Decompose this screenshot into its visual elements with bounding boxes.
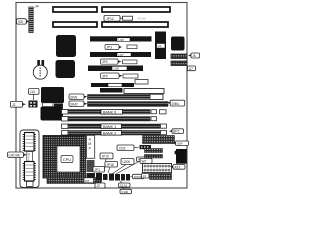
callout J8 [167,100,185,106]
slot row D2 dark [100,88,123,93]
svg-text:JP5: JP5 [102,74,108,78]
callout U24 [173,141,189,146]
svg-text:BANK 1: BANK 1 [103,125,116,129]
header bar J20 [47,178,101,184]
chip U30 wide [41,87,64,103]
callout pair A/B [105,45,137,50]
svg-text:J4: J4 [143,174,147,178]
chip U11 [56,60,76,78]
mini header 2 [145,155,163,159]
ISA slot 1 right [102,7,170,12]
ISA slot 2 right [102,22,168,27]
SIMM socket 1 [88,95,151,100]
SIMM socket 4 [62,117,157,122]
connector CN2 [171,61,187,66]
callout ATX [170,165,185,170]
callout J2b [95,181,105,188]
callout J40 [142,174,150,179]
callout J6 [188,53,200,58]
callout W106 [130,174,144,179]
callout V10 [120,188,132,195]
CPU center [57,146,80,172]
ISA slot 2 left [53,22,97,27]
svg-text:U300: U300 [123,160,131,164]
svg-text:J2: J2 [97,184,101,188]
svg-text:ATX: ATX [175,165,182,169]
svg-text:CACHE: CACHE [9,153,22,157]
battery [33,60,47,79]
power connector [176,149,187,164]
keyboard connector J4 [29,7,33,33]
chip U10 [56,35,76,57]
SIMM socket 1 end [150,94,163,99]
callout G101 [119,181,131,188]
SIMM tab 1 [69,94,87,100]
svg-text:CPU: CPU [63,157,72,162]
callout pair B/C [101,59,138,64]
slot row A [90,36,152,42]
svg-text:JP4: JP4 [102,60,108,64]
callout J12 [104,16,146,22]
svg-text:SIM2: SIM2 [70,102,78,106]
slot row C [88,66,143,72]
callout J2 [11,101,26,107]
callout W1 [116,157,147,174]
SIMM socket 2 [88,102,169,107]
SIMM socket 6 [62,131,167,136]
SIMM socket 3 [62,110,167,115]
slot row B [90,52,151,57]
svg-text:V100: V100 [121,190,128,194]
svg-text:CN2: CN2 [119,146,126,150]
slot row D [91,83,134,87]
front panel header cluster [96,173,130,181]
SIMM socket 5 [62,124,167,129]
svg-text:W106: W106 [134,175,142,179]
ISA slot 1 left [53,7,97,12]
socket label vertical [87,135,96,178]
svg-text:KB: KB [18,20,23,24]
callout J10 [29,89,40,101]
callout CACHE [8,152,27,158]
svg-text:J10: J10 [30,90,35,94]
cache small square [27,182,34,187]
callout J5 [100,153,113,172]
svg-text:BP1: BP1 [173,130,179,134]
board outline [16,3,187,189]
svg-text:G101: G101 [120,184,128,188]
callout BP1 [169,129,184,134]
svg-text:U1: U1 [158,44,162,48]
slot row D2 light [124,89,164,94]
callout U300 [112,159,134,175]
svg-text:DX: DX [85,179,89,183]
cache chip U22 [23,162,36,182]
svg-text:JP10: JP10 [102,155,109,159]
BANK 1 label [101,124,122,129]
CPU socket [43,136,86,179]
svg-text:DIM1: DIM1 [172,102,180,106]
header J40 [150,174,172,180]
cache label vertical [27,152,33,162]
chip U8 big [171,37,185,51]
svg-text:JP12: JP12 [106,17,114,21]
svg-text:U16: U16 [119,38,125,42]
BANK 2 label [101,131,122,136]
callout JP18 [105,162,118,174]
callout pair C/D [101,73,139,79]
svg-text:JP1: JP1 [95,168,101,172]
SIMM tab 2 [69,101,87,107]
callout U2 [117,145,151,151]
svg-text:J6: J6 [192,54,196,58]
svg-text:JP3: JP3 [107,45,113,49]
svg-text:BANK 2: BANK 2 [103,131,116,135]
small box U19 [135,80,148,85]
ATX header [143,164,172,173]
callout U7 [188,66,196,71]
svg-text:JP18: JP18 [107,163,114,167]
BANK 0 label [101,109,123,114]
cache socket outline [20,130,39,188]
callout A1 [93,167,105,174]
svg-text:W2: W2 [142,160,147,164]
connector J10 pins [29,101,38,108]
svg-text:M: M [88,142,91,146]
svg-text:BANK 0: BANK 0 [103,110,116,114]
callout W2 [140,159,152,164]
callout KB [17,19,30,24]
chip U9 tall [155,32,166,60]
svg-text:19U16: 19U16 [137,17,146,21]
svg-text:U18: U18 [114,67,120,71]
svg-text:U24: U24 [177,142,183,146]
svg-text:SIM1: SIM1 [70,95,78,99]
pin row J30 [143,136,175,144]
svg-text:U17: U17 [119,53,125,57]
svg-text:J2: J2 [12,103,16,107]
connector CN1 [171,54,187,59]
mini header 1 [145,149,163,153]
svg-text:U7: U7 [189,67,193,71]
cache chip U20 [23,133,36,152]
